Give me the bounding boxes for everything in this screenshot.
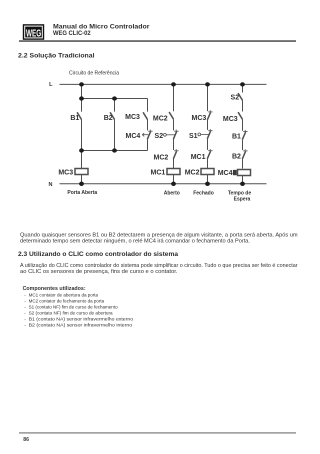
svg-text:Aberto: Aberto — [164, 190, 180, 196]
wire: parallel top sub-rail — [82, 98, 148, 100]
contact B2 (NO sensor) — [114, 99, 116, 112]
svg-text:WEG CLIC-02: WEG CLIC-02 — [53, 30, 91, 37]
junction L rail / B1 branch — [79, 82, 84, 86]
contact MC3 (NO) — [238, 112, 242, 119]
wire: parallel bottom sub-rail — [82, 150, 148, 152]
svg-text:B2: B2 — [232, 154, 241, 161]
contact MC4 (NC timed) — [148, 130, 152, 132]
svg-text:L: L — [49, 82, 53, 88]
contact MC2 (NC) — [174, 150, 178, 152]
contact B1 (NC) — [243, 131, 247, 133]
coil MC3 — [75, 169, 88, 175]
coil MC2 — [201, 169, 214, 175]
svg-text:-: - — [24, 318, 26, 323]
svg-text:MC4: MC4 — [218, 170, 233, 177]
svg-text:S2 (contato NF) fim de curso d: S2 (contato NF) fim de curso de abertura — [29, 311, 113, 317]
svg-text:Espera: Espera — [234, 197, 251, 203]
junction N rail / coil MC3 — [79, 182, 84, 186]
junction bottom sub-rail / B2 — [112, 148, 117, 152]
svg-text:MC1: MC1 — [151, 170, 166, 177]
svg-text:N: N — [49, 182, 53, 188]
svg-text:-: - — [24, 306, 26, 311]
contact MC2 (NO) — [173, 84, 175, 111]
svg-text:B2: B2 — [104, 115, 113, 122]
contact B2 (NC) — [243, 150, 247, 152]
svg-text:-: - — [24, 312, 26, 317]
junction N rail / coil MC1 — [171, 182, 176, 186]
svg-text:WEG: WEG — [26, 27, 41, 39]
pushbutton S1 (NC) — [208, 130, 212, 132]
svg-text:MC2 contator de fechamento da: MC2 contator de fechamento da porta — [29, 299, 105, 305]
svg-text:MC3: MC3 — [125, 114, 140, 121]
svg-text:ao CLIC os sensores de presenç: ao CLIC os sensores de presença, fins de… — [20, 269, 178, 275]
pushbutton S2 (NC) — [174, 130, 178, 132]
svg-text:2.3 Utilizando o CLIC como con: 2.3 Utilizando o CLIC como controlador d… — [18, 251, 179, 258]
svg-text:B2 (contato NA) sensor infrave: B2 (contato NA) sensor infravermelho int… — [29, 323, 133, 329]
svg-text:-: - — [24, 300, 26, 305]
header rule — [19, 40, 296, 42]
junction sub-rail / B2 — [112, 96, 117, 100]
wire: L rail — [60, 83, 267, 85]
svg-text:MC3: MC3 — [192, 115, 207, 122]
footer rule — [19, 432, 296, 433]
coil MC1 — [167, 169, 180, 175]
svg-text:MC2: MC2 — [154, 154, 169, 161]
junction N rail / coil MC2 — [205, 182, 210, 186]
svg-text:determinado tempo sem detectar: determinado tempo sem detectar ninguém, … — [20, 239, 250, 245]
svg-text:MC2: MC2 — [153, 115, 168, 122]
svg-text:MC3: MC3 — [223, 116, 238, 123]
svg-text:MC2: MC2 — [185, 170, 200, 177]
svg-text:MC3: MC3 — [58, 170, 73, 177]
wire: to coil MC3 — [81, 151, 83, 169]
svg-text:B1 (contato NA) sensor infrave: B1 (contato NA) sensor infravermelho ext… — [29, 317, 134, 323]
svg-text:-: - — [24, 294, 26, 299]
svg-text:Circuito de Referência: Circuito de Referência — [69, 71, 119, 77]
svg-text:Componentes utilizados:: Componentes utilizados: — [23, 286, 86, 292]
coil MC4 — [233, 170, 237, 175]
svg-text:S1 (contato NF) fim de curso d: S1 (contato NF) fim de curso de fechamen… — [29, 305, 118, 311]
junction L rail / Fechado branch — [205, 82, 210, 86]
svg-text:Porta Aberta: Porta Aberta — [67, 190, 97, 196]
svg-text:S2: S2 — [155, 133, 164, 140]
contact MC3 (NC) — [207, 84, 209, 111]
junction sub-rail / B1 — [79, 96, 84, 100]
svg-text:B1: B1 — [232, 133, 241, 140]
contact MC1 (NC) — [208, 150, 212, 152]
svg-text:MC4: MC4 — [126, 133, 141, 140]
svg-text:MC1: MC1 — [191, 154, 206, 161]
svg-text:2.2 Solução Tradicional: 2.2 Solução Tradicional — [18, 53, 95, 60]
junction L rail / Tempo branch — [240, 82, 245, 86]
contact S2 (NO) — [242, 84, 244, 92]
svg-text:B1: B1 — [70, 115, 79, 122]
WEG logo — [23, 24, 44, 40]
svg-text:Tempo de: Tempo de — [228, 190, 251, 196]
contact MC3 (NO) — [147, 99, 149, 112]
junction bottom sub-rail / B1 — [79, 148, 84, 152]
svg-text:86: 86 — [23, 437, 29, 443]
wire: N rail — [60, 183, 267, 185]
svg-text:S2: S2 — [231, 94, 240, 101]
junction N rail / coil MC4 — [240, 182, 245, 186]
contact B1 (NO sensor) — [81, 99, 83, 112]
junction L rail / Aberto branch — [171, 82, 176, 86]
svg-text:Fechado: Fechado — [193, 190, 214, 196]
wire: L to sub-rail — [81, 84, 83, 98]
svg-text:S1: S1 — [189, 133, 198, 140]
svg-text:MC1 contator de abertura da po: MC1 contator de abertura da porta — [29, 293, 99, 299]
svg-text:-: - — [24, 324, 26, 329]
